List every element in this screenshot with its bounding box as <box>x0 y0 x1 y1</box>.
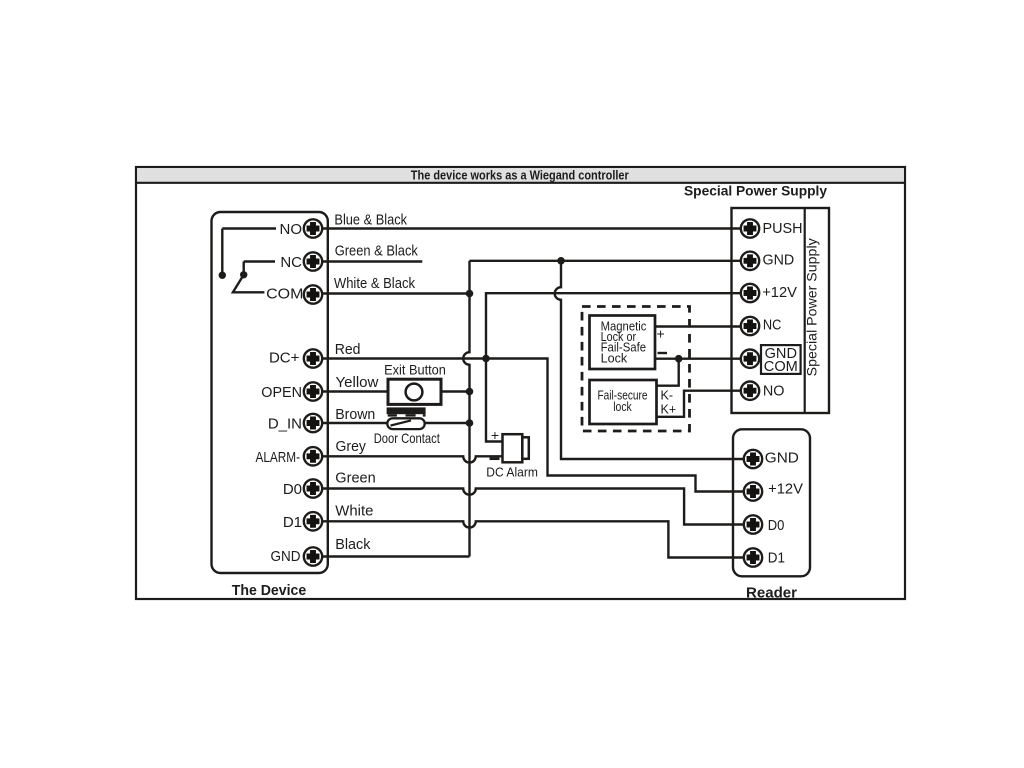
svg-text:NC: NC <box>763 317 782 334</box>
wire common vertical net <box>463 261 469 557</box>
node red junction <box>482 355 490 363</box>
wire blue-black NO to PUSH <box>313 227 750 229</box>
screw power GND <box>741 252 759 270</box>
svg-text:The Device: The Device <box>232 582 307 599</box>
screw device D0 <box>304 479 322 497</box>
screw reader D0 <box>744 515 762 533</box>
svg-text:lock: lock <box>613 399 632 414</box>
wire magnetic minus to GND COM <box>655 358 750 360</box>
wire K- link to minus net <box>656 359 678 386</box>
wire white-black COM to junction <box>313 292 470 294</box>
svg-text:Reader: Reader <box>746 584 797 601</box>
wire dc-alarm plus feed <box>486 359 503 442</box>
node minus junction <box>675 355 683 363</box>
svg-text:NO: NO <box>763 383 785 400</box>
svg-text:GND: GND <box>765 450 799 467</box>
door contact reed switch <box>387 418 424 429</box>
screw device OPEN <box>304 382 322 400</box>
svg-text:+: + <box>657 326 665 342</box>
wire exit button to common net <box>441 390 470 392</box>
node COM junction <box>466 290 474 298</box>
svg-text:ALARM-: ALARM- <box>256 449 301 466</box>
screw device NC <box>304 252 322 270</box>
svg-text:Grey: Grey <box>336 438 367 455</box>
wire yellow OPEN to exit button <box>313 390 388 392</box>
relay blade switch <box>233 275 265 293</box>
svg-text:Lock: Lock <box>601 350 628 365</box>
svg-text:+: + <box>491 427 499 443</box>
screw power NC <box>741 317 759 335</box>
svg-text:Green & Black: Green & Black <box>335 242 419 259</box>
wire plus12 run to power +12V <box>486 293 750 358</box>
svg-text:NC: NC <box>280 254 302 271</box>
screw power GND COM <box>741 350 759 368</box>
fail-secure lock box <box>590 380 657 424</box>
label boxed GND COM <box>761 345 801 375</box>
dashed lock enclosure <box>582 307 690 432</box>
wire green D0 to reader D0 <box>313 489 750 525</box>
svg-text:The device works as a Wiegand: The device works as a Wiegand controller <box>411 167 629 182</box>
wire green-black NC stub <box>313 260 422 262</box>
screw reader +12V <box>744 482 762 500</box>
svg-text:COM: COM <box>764 358 798 375</box>
svg-text:Red: Red <box>335 341 361 358</box>
wire brown D_IN to door contact <box>313 422 387 424</box>
reader box <box>733 429 810 576</box>
node yellow junction <box>466 388 474 396</box>
door contact magnet bar <box>387 407 426 416</box>
svg-text:Brown: Brown <box>335 406 375 423</box>
svg-text:D1: D1 <box>283 514 302 531</box>
power supply box <box>732 208 830 413</box>
wire K+ to NO <box>656 391 750 417</box>
screw device NO <box>304 219 322 237</box>
wire black GND to common net <box>313 555 470 557</box>
screw device ALARM- <box>304 447 322 465</box>
screw device D_IN <box>304 414 322 432</box>
svg-text:Blue & Black: Blue & Black <box>334 212 407 229</box>
svg-text:GND: GND <box>763 252 795 269</box>
screw power +12V <box>741 284 759 302</box>
screw reader GND <box>744 450 762 468</box>
label magnetic minus <box>658 352 668 354</box>
svg-text:+12V: +12V <box>762 284 797 301</box>
label fail-secure text <box>598 388 648 415</box>
power supply divider <box>804 208 806 413</box>
screw PUSH <box>741 219 759 237</box>
wire red DC+ run <box>313 359 750 492</box>
DC alarm buzzer BZ1 <box>503 434 529 462</box>
label magnetic lock text <box>601 318 647 365</box>
device box U1 <box>212 212 328 573</box>
svg-text:Special Power Supply: Special Power Supply <box>684 182 827 198</box>
svg-text:+12V: +12V <box>768 481 803 498</box>
svg-text:GND: GND <box>271 548 301 565</box>
svg-text:White & Black: White & Black <box>334 275 416 292</box>
relay NO stub wire <box>222 229 276 276</box>
node GND branch junction <box>557 257 565 265</box>
screw reader D1 <box>744 548 762 566</box>
svg-text:D0: D0 <box>283 481 302 498</box>
svg-text:White: White <box>335 503 373 520</box>
svg-text:Door Contact: Door Contact <box>374 430 440 446</box>
svg-text:Green: Green <box>335 469 375 486</box>
svg-text:COM: COM <box>266 286 303 303</box>
svg-text:PUSH: PUSH <box>763 220 803 237</box>
exit button SW1 <box>388 379 441 404</box>
svg-text:OPEN: OPEN <box>261 384 302 401</box>
label DC alarm minus <box>490 458 500 461</box>
relay NC contact node <box>240 271 247 278</box>
wire gnd branch vertical to reader GND <box>555 261 750 459</box>
svg-text:D0: D0 <box>768 517 785 534</box>
screw device COM <box>304 285 322 303</box>
screw device GND <box>304 547 322 565</box>
outer frame <box>136 167 905 599</box>
svg-text:K+: K+ <box>661 403 677 417</box>
relay NC stub wire <box>244 262 275 275</box>
svg-text:DC+: DC+ <box>269 350 300 367</box>
svg-text:D1: D1 <box>768 550 785 567</box>
screw device D1 <box>304 512 322 530</box>
wire white D1 to reader D1 <box>313 521 750 557</box>
wire gnd top run to power GND <box>470 260 751 262</box>
relay NO contact node <box>219 272 226 279</box>
wire grey ALARM- to DC alarm <box>313 456 503 462</box>
svg-text:NO: NO <box>280 221 303 238</box>
svg-text:Black: Black <box>335 536 371 553</box>
svg-text:Special Power Supply: Special Power Supply <box>804 238 820 376</box>
wire magnetic plus to NC <box>655 325 750 327</box>
svg-text:K-: K- <box>661 389 674 403</box>
svg-text:Exit Button: Exit Button <box>384 362 446 378</box>
node brown junction <box>466 419 474 427</box>
svg-text:D_IN: D_IN <box>268 416 302 433</box>
svg-text:DC Alarm: DC Alarm <box>486 465 538 480</box>
magnetic lock box <box>590 316 656 370</box>
screw power NO <box>741 382 759 400</box>
svg-text:Yellow: Yellow <box>336 374 379 391</box>
title bar <box>136 168 905 183</box>
screw device DC+ <box>304 349 322 367</box>
wire door contact to common net <box>425 422 470 424</box>
